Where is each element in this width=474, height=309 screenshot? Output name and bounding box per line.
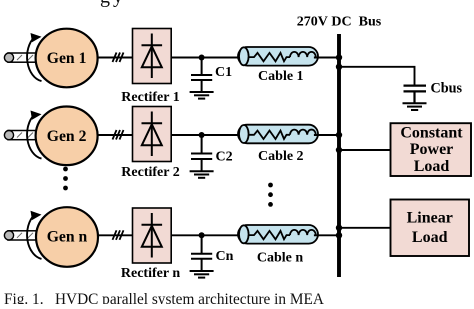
ground of Cn — [190, 271, 214, 278]
three-phase marks row 2 — [113, 130, 124, 140]
270V DC bus bar (vertical) — [337, 34, 341, 277]
ground of C1 — [190, 92, 214, 99]
junction cablen-bus — [336, 232, 342, 238]
junction cable1-bus — [336, 54, 342, 60]
wire Cablen to bus — [314, 234, 339, 236]
generator Gen 2 — [36, 107, 98, 166]
junction cable2-bus — [336, 132, 342, 138]
wire bus to Cbus — [339, 67, 415, 86]
svg-text:Cn: Cn — [216, 249, 234, 264]
svg-text:Linear: Linear — [407, 210, 453, 227]
ground of Cbus — [403, 103, 427, 110]
rotation arrow of Gen 1 — [27, 33, 41, 81]
generator Gen n — [36, 207, 98, 267]
junction Cbus branch — [336, 64, 342, 70]
dots column cable — [268, 183, 273, 207]
svg-text:Constant: Constant — [400, 124, 463, 141]
ground of C2 — [190, 171, 214, 178]
three-phase marks row n — [113, 230, 124, 240]
svg-text:Gen n: Gen n — [47, 229, 88, 246]
Linear Load box — [391, 200, 470, 257]
capacitor C1 — [191, 58, 212, 93]
wire bus to Linear Load — [339, 227, 391, 229]
diode symbol rectifier n — [142, 213, 163, 258]
svg-text:Fig. 1. HVDC parallel system: Fig. 1. HVDC parallel system architectur… — [4, 291, 324, 304]
rectifier 1 box — [133, 29, 172, 84]
capacitor Cbus — [404, 86, 427, 103]
svg-text:Rectifer 2: Rectifer 2 — [121, 165, 179, 180]
svg-text:gy: gy — [100, 0, 126, 8]
capacitor Cn — [191, 235, 212, 270]
svg-text:Cable 2: Cable 2 — [258, 149, 304, 164]
shaft of Gen 1 — [4, 53, 46, 62]
svg-text:Load: Load — [412, 229, 448, 246]
wire Rectifier1 to Cable1 — [171, 57, 238, 59]
diode symbol rectifier 2 — [142, 112, 163, 157]
svg-text:C2: C2 — [216, 150, 233, 165]
wire Rectifiern to Cablen — [171, 234, 238, 236]
rotation arrow of Gen 2 — [27, 111, 41, 159]
dots column gen — [63, 167, 68, 191]
generator Gen 1 — [36, 29, 98, 88]
three-phase marks row 1 — [113, 53, 124, 63]
wire Cable1 to bus — [314, 57, 339, 59]
wire bus to Constant Power Load — [339, 149, 391, 151]
svg-text:Rectifer n: Rectifer n — [121, 266, 180, 281]
svg-text:Load: Load — [414, 158, 450, 175]
wire Gen2 to Rectifier2 — [98, 134, 133, 136]
svg-text:Gen 1: Gen 1 — [47, 50, 87, 67]
wire Rectifier2 to Cable2 — [171, 134, 238, 136]
shaft of Gen 2 — [4, 131, 46, 140]
wire Genn to Rectifiern — [98, 234, 133, 236]
cable Cable n — [238, 225, 318, 244]
cable Cable 1 — [238, 47, 318, 66]
svg-text:270V DC Bus: 270V DC Bus — [297, 14, 382, 29]
shaft of Gen n — [4, 231, 46, 240]
rectifier 2 box — [133, 107, 172, 162]
node at C1 — [199, 55, 205, 61]
wire Cable2 to bus — [314, 134, 339, 136]
svg-text:Cable n: Cable n — [257, 251, 304, 266]
svg-text:Cbus: Cbus — [431, 80, 463, 96]
node at Cn — [199, 232, 205, 238]
cable Cable 2 — [238, 125, 318, 144]
diode symbol rectifier 1 — [142, 34, 163, 79]
svg-text:Gen 2: Gen 2 — [47, 128, 87, 145]
Constant Power Load box — [391, 123, 472, 176]
junction linear-load branch — [336, 225, 342, 231]
svg-text:Rectifer 1: Rectifer 1 — [121, 90, 179, 105]
capacitor C2 — [191, 135, 212, 171]
rectifier n box — [133, 208, 172, 263]
node at C2 — [199, 132, 205, 138]
svg-text:Cable 1: Cable 1 — [258, 69, 304, 84]
rotation arrow of Gen n — [27, 211, 41, 259]
svg-text:C1: C1 — [215, 65, 232, 80]
wire Gen1 to Rectifier1 — [98, 57, 133, 59]
junction constant-load branch — [336, 147, 342, 153]
svg-text:Power: Power — [410, 141, 454, 158]
